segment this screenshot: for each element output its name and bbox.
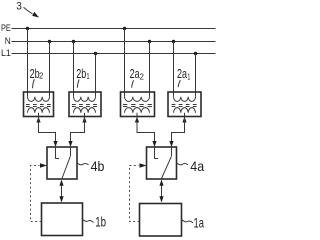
wire L1 drop to 2a1 <box>195 54 197 97</box>
node junction PE to 2a2 <box>123 27 126 30</box>
wire L1 drop to 2b1 <box>95 54 97 97</box>
wire 2b2 to 4b with arrows <box>36 117 57 148</box>
svg-text:2a: 2a <box>130 66 141 81</box>
svg-text:2: 2 <box>39 71 44 81</box>
svg-text:2: 2 <box>140 71 145 81</box>
svg-text:4a: 4a <box>190 158 204 174</box>
transformer 2b1 <box>69 92 101 117</box>
svg-text:4b: 4b <box>91 158 105 174</box>
svg-text:1: 1 <box>86 71 89 81</box>
wire 2a1 to 4a with arrows <box>169 117 186 148</box>
wire PE drop to 2a2 <box>124 29 126 97</box>
box 1a <box>140 204 182 237</box>
node junction N to 2b2 <box>48 40 51 43</box>
label 2a2 <box>130 66 145 88</box>
label 2b2 <box>30 66 44 88</box>
label 4a <box>177 158 205 174</box>
node junction PE to 2b2 <box>26 27 29 30</box>
svg-text:2a: 2a <box>177 66 188 81</box>
box 1b <box>42 203 83 236</box>
wire PE bus <box>12 28 216 30</box>
node junction N to 2a1 <box>172 40 175 43</box>
figure label 3 leader arrow <box>24 7 33 14</box>
svg-text:1a: 1a <box>194 214 205 230</box>
svg-text:2b: 2b <box>76 66 86 81</box>
wire PE drop to 2b2 <box>27 29 29 97</box>
dashed control wire 1a to 4a <box>130 163 147 221</box>
wire N drop to 2a2 <box>149 42 151 97</box>
switch 4b <box>47 147 77 179</box>
svg-text:1b: 1b <box>95 214 106 230</box>
wire N drop to 2b1 <box>73 42 75 97</box>
wire 2a2 to 4a with arrows <box>135 117 157 148</box>
wire N drop to 2a1 <box>173 42 175 97</box>
wire 2b1 to 4b with arrows <box>68 117 86 148</box>
svg-text:L1: L1 <box>1 48 11 59</box>
label 1a <box>181 214 204 230</box>
switch 4a <box>147 147 177 179</box>
svg-text:1: 1 <box>187 71 190 81</box>
label 2b1 <box>76 66 90 88</box>
transformer 2a1 <box>168 92 201 117</box>
label 2a1 <box>177 66 191 87</box>
svg-text:PE: PE <box>1 23 11 34</box>
node junction L1 to 2a1 <box>194 52 197 55</box>
node junction N to 2a2 <box>148 40 151 43</box>
label 1b <box>82 214 106 230</box>
wire N drop to 2b2 <box>49 42 51 97</box>
wire 4b to 1b double arrow <box>59 180 63 203</box>
wire 4a to 1a double arrow <box>159 180 163 203</box>
wire N bus <box>12 41 216 43</box>
node junction L1 to 2b1 <box>94 52 97 55</box>
dashed control wire 1b to 4b <box>31 163 48 221</box>
label 4b <box>77 158 105 174</box>
transformer 2a2 <box>121 92 155 117</box>
node junction N to 2b1 <box>72 40 75 43</box>
svg-text:N: N <box>5 36 11 47</box>
transformer 2b2 <box>24 92 54 117</box>
wire L1 bus <box>12 53 216 55</box>
svg-text:3: 3 <box>16 1 22 13</box>
